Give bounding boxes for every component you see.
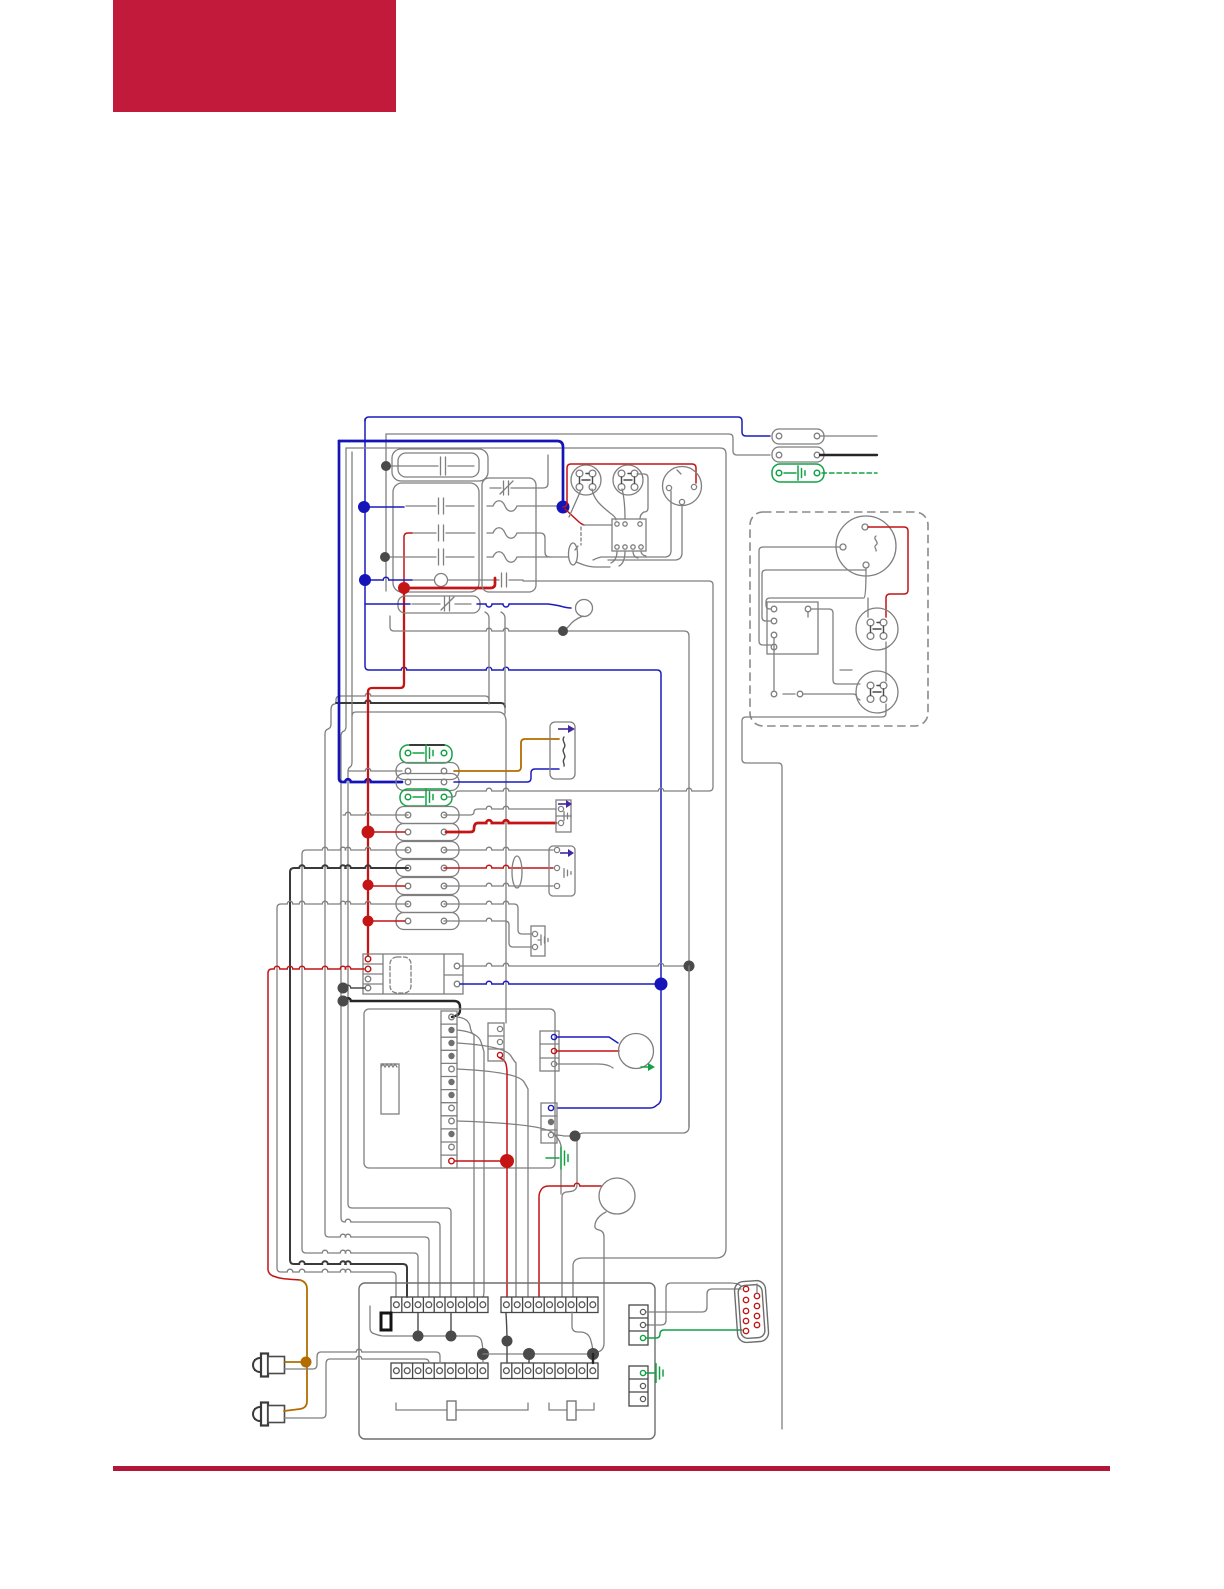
wire pcb s-curve 2 — [457, 1030, 484, 1297]
capacitor heater element E3 — [439, 525, 444, 541]
connector row C — [396, 807, 459, 824]
box R2 thermal switch — [549, 846, 575, 896]
fuse F3 — [487, 552, 522, 563]
wire R6 pin3 to junction — [554, 1135, 571, 1136]
relay K1 box — [612, 519, 646, 551]
wire red generator to plug A — [868, 527, 908, 617]
module pins left — [365, 956, 371, 962]
wire red pcb bottom jumper — [455, 1160, 503, 1162]
wire C2 BL to relay pin2 — [622, 489, 625, 519]
actuator pill rows — [512, 856, 522, 888]
wire element E1 row — [390, 465, 474, 467]
node dark junction s3 — [477, 1348, 489, 1360]
wire C1 BR to relay pin1 — [592, 489, 616, 520]
wire row E right to box R2 — [444, 847, 553, 850]
wire red to motor — [557, 1050, 619, 1052]
wire blue to lamp — [477, 604, 571, 608]
box R1 thermal switch — [556, 800, 571, 832]
wire fuse1 to blue node — [522, 505, 560, 507]
wire gray from selector to relay pin1 — [583, 524, 612, 526]
green terminal block E2 — [400, 789, 452, 806]
connector row D — [396, 824, 459, 841]
node red junction pcb — [500, 1154, 514, 1168]
capacitor C5 on row5 — [502, 573, 507, 587]
wire gray top frame to connector — [386, 434, 770, 455]
wire green K3 pin3 to dsub — [646, 1330, 742, 1338]
ground symbol in X3 — [784, 472, 796, 474]
wire orange row A to heater box — [454, 739, 559, 771]
wire contact to plug B BL — [803, 694, 860, 700]
capacitor heater element E2 — [439, 498, 444, 514]
arrow purple R0 — [558, 728, 568, 730]
wire blue stub row2 — [365, 506, 404, 508]
wire red long from jack line — [268, 966, 364, 1280]
box defrost row6 — [398, 596, 480, 613]
green terminal block E1 — [400, 745, 452, 763]
switch contact gap — [783, 693, 795, 695]
dsub pins right column — [754, 1293, 759, 1298]
wire orange riser — [284, 1280, 307, 1411]
capacitor heater element E1 — [441, 457, 446, 475]
wire K3 pin1 to dsub — [646, 1289, 741, 1312]
node dark junction s6 — [502, 1336, 513, 1347]
node dark junction s4 — [523, 1348, 535, 1360]
connector plug A 4-pin — [856, 608, 898, 650]
connector row A — [396, 763, 459, 780]
wire red riser connector R5 — [500, 1058, 507, 1297]
connector block K3 3-cell — [629, 1305, 648, 1345]
node junction dot x689 — [684, 961, 695, 972]
node dark junction s2 — [446, 1331, 457, 1342]
wire buzzer bottom to strip — [595, 1212, 606, 1353]
node red junction row I — [363, 916, 374, 927]
connector row I — [396, 913, 459, 930]
terminal strip TS2 right — [501, 1363, 598, 1379]
wire pcb s-curve 1 — [457, 1017, 474, 1297]
wire blue thick main — [339, 441, 563, 507]
page header red block — [113, 0, 396, 112]
wire pcb s-curve 4 — [457, 1069, 528, 1297]
wire gray y712 to x506 — [352, 712, 506, 1023]
wire gray y696 to x489 — [340, 693, 489, 700]
node junction dot row1 — [381, 461, 391, 471]
wire red diagonal from node — [565, 509, 584, 525]
capacitor heater element E4 — [439, 549, 444, 565]
wire ignition bottom pin down — [608, 505, 682, 560]
selector actuator pill — [569, 543, 578, 565]
wire lamp to y631 — [564, 616, 583, 631]
wire red stub to capacitor — [404, 578, 495, 588]
wire red thick drop to module — [368, 588, 404, 955]
node dark junction s1 — [413, 1331, 424, 1342]
pcb label rectangle — [381, 1064, 399, 1114]
connector block X3 green — [772, 464, 824, 482]
wire strip1 inner link — [370, 1306, 483, 1363]
node blue junction x661 — [655, 978, 668, 991]
fuse holder black — [381, 1313, 391, 1330]
wire element E2 row — [406, 505, 474, 507]
wire gray jack J2 to strip — [284, 1356, 429, 1418]
wire relay K2 TR to plug B — [811, 609, 860, 684]
wire red thin row F to box R2 — [444, 865, 553, 868]
node dark junction s5 — [587, 1348, 599, 1360]
wire red row D to box R1 — [446, 820, 556, 832]
wire bus to dsub — [646, 1283, 741, 1325]
wire row G right to box R2 — [444, 883, 553, 886]
connector block X1 — [772, 429, 824, 444]
connector row G — [396, 878, 459, 895]
ground symbol R3 — [538, 939, 540, 941]
box R3 sensor — [531, 926, 545, 956]
connector block X2 — [772, 447, 824, 462]
wire vertical x506 upper — [501, 612, 505, 714]
thermostat bulb row5 — [435, 574, 448, 587]
bottom control box — [359, 1283, 655, 1439]
connector row F — [396, 860, 459, 877]
wire pcb s-curve 5 — [457, 1121, 561, 1194]
wire module out blue to x661 — [460, 981, 657, 984]
ground wire green mid — [546, 1157, 559, 1159]
wire gray row5 jumper to green block E2 — [448, 581, 713, 797]
wire red drop from row3 — [404, 533, 412, 588]
wire fuse2 merge — [522, 533, 550, 557]
heater box R0 — [550, 722, 575, 779]
wire blue stub row5 — [365, 577, 412, 580]
buzzer B1 — [599, 1178, 635, 1214]
wire row E left to bundle — [302, 847, 418, 1297]
wire relay drops — [611, 551, 646, 566]
wire mains N out black — [820, 454, 877, 456]
wire row C right to box R1 — [444, 806, 556, 815]
wire plug A BR to plug B TR — [885, 642, 887, 681]
dsub connector DB9 — [734, 1280, 769, 1343]
selector link — [575, 546, 578, 550]
relay K2 box — [767, 602, 818, 654]
connector plug C1 4-pin — [571, 465, 601, 495]
terminal strip TS2 left — [391, 1363, 488, 1379]
wire red riser to ignition switch — [563, 464, 696, 507]
wire plug B BR out of box — [742, 704, 886, 1429]
ignition module box — [363, 954, 463, 994]
connector R6 3-cell — [541, 1103, 557, 1143]
wire element E4 row — [389, 556, 474, 558]
ground wire green K4 — [646, 1372, 654, 1374]
wire fuse3 to selector — [522, 556, 568, 558]
wire row H right to box R3 — [444, 901, 531, 934]
wire gray frame x346 jog to bundle x343 — [341, 448, 440, 1297]
wire generator bottom to relay K2 pin2 — [762, 568, 866, 621]
wire gray vertical x386 — [385, 434, 387, 591]
jack plug J1 — [254, 1359, 263, 1371]
heating element squiggle in R0 — [563, 737, 565, 766]
box heater row1 — [398, 453, 479, 477]
wire generator left to relay K2 pin4 — [759, 547, 840, 645]
wire gray outer frame x726 — [346, 448, 726, 1297]
connector R5 3-cell — [488, 1023, 504, 1061]
wire red row D stub — [368, 831, 405, 833]
wire gray jack J1 to strip — [284, 1349, 440, 1369]
page footer red rule — [113, 1466, 1110, 1471]
box heater main — [393, 483, 479, 592]
relay K1 pins — [615, 522, 619, 526]
selector switch wiper diagonal — [569, 490, 581, 517]
wire gray bundle x352 row A — [348, 452, 451, 1297]
wire black to pcb terminal — [343, 998, 460, 1017]
wire jumper bus y1354 — [483, 1353, 592, 1355]
box fuse block — [482, 478, 536, 592]
connector block K4 3-cell — [629, 1366, 648, 1406]
ignition switch S1 — [663, 467, 702, 506]
wire blue row B to heater box — [454, 769, 559, 782]
arrow purple R1 — [558, 803, 566, 805]
pcb terminal pins — [449, 1014, 455, 1020]
pcb control unit box — [364, 1009, 555, 1168]
wire fuse input right link — [520, 455, 548, 488]
node blue junction row5 — [359, 574, 371, 586]
wire fuse input row — [490, 487, 520, 489]
wire relay K2 pin1 link — [766, 570, 866, 609]
wire red row I stub — [368, 920, 405, 922]
wire blue thin top loop — [365, 417, 770, 436]
wire row I right to box R3 — [444, 918, 531, 947]
jack plug J2 — [254, 1408, 263, 1420]
wire row F left dark to bundle — [290, 865, 408, 1297]
wire gray x689 branch — [688, 966, 690, 1127]
node dark junction 2 — [338, 996, 349, 1007]
arrow green motor — [641, 1066, 648, 1068]
wire blue to motor — [557, 1037, 618, 1043]
node junction dot y631 — [558, 626, 568, 636]
node blue junction main — [557, 501, 570, 514]
wire blue thick vertical to row B — [339, 441, 402, 782]
wire pcb s-curve 3 — [457, 1043, 516, 1297]
dsub pins left column — [743, 1286, 748, 1291]
dashed enclosure box — [750, 512, 928, 726]
wire vertical x489 upper — [485, 612, 489, 704]
wire row C left to bundle — [343, 812, 408, 815]
wire dark y703 — [336, 700, 505, 707]
switch SW1 — [396, 1403, 528, 1410]
wire orange jack J1 — [285, 1361, 301, 1363]
connector row B — [396, 774, 459, 791]
wire dsub top stub — [756, 1284, 758, 1293]
node dark junction x575 — [570, 1131, 581, 1142]
capacitor slashed C6 — [441, 597, 454, 611]
wire module out gray to x689 — [460, 963, 685, 966]
wire C2 TR loop to relay pin3 — [637, 474, 648, 519]
lamp L1 — [576, 600, 593, 617]
box heater outer frame — [392, 449, 488, 481]
wire blue vertical left inner — [365, 419, 661, 1108]
wire row5 — [412, 579, 477, 581]
wire red buzzer loop — [539, 1183, 601, 1297]
wire row5 capacitor leads — [477, 579, 523, 581]
wire ignition left pin down — [593, 491, 671, 560]
node junction dot row4 — [380, 552, 390, 562]
AC generator G1 — [836, 516, 896, 576]
capacitor slashed input — [500, 481, 513, 495]
wire dark x331 to bundle x325 — [325, 704, 429, 1297]
wire jumper strip1 to strip2 right — [572, 1312, 593, 1354]
connector plug B 4-pin — [856, 671, 898, 713]
wire row H left to bundle — [277, 901, 408, 1297]
wire earth dashed green — [822, 472, 877, 474]
wire row A left to bundle — [348, 768, 402, 771]
wire dark jumper to module — [343, 985, 365, 988]
fuse F2 — [487, 528, 522, 539]
wire mains L out — [820, 435, 877, 437]
node blue junction row2 — [358, 501, 370, 513]
label minus mark — [840, 669, 852, 671]
connector plug C2 4-pin — [613, 465, 643, 495]
node dark junction 1 — [338, 983, 349, 994]
selector diagonal 2 — [576, 562, 610, 567]
wire blue stub row6 — [365, 603, 410, 605]
wire plug A TL stub — [867, 598, 869, 617]
module pins right — [454, 963, 460, 969]
connector R4 3-cell — [540, 1031, 559, 1071]
ground mark R2 — [564, 869, 571, 878]
wire red row G stub — [368, 885, 405, 887]
terminal strip TS1 right — [501, 1297, 598, 1313]
wire row6 — [412, 603, 471, 605]
node red junction row D — [362, 826, 375, 839]
pcb terminal column — [441, 1011, 457, 1168]
connector row E — [396, 842, 459, 859]
motor M1 — [619, 1034, 654, 1069]
relay K2 pins — [771, 606, 777, 612]
terminal strip TS1 left — [391, 1297, 488, 1313]
connector row H — [396, 896, 459, 913]
node red junction — [398, 582, 410, 594]
wire relay K2 pin3 down — [773, 638, 775, 690]
wire element E3 row — [412, 532, 475, 534]
node red junction row G — [363, 880, 374, 891]
wire gray to motor — [557, 1064, 613, 1068]
ground mark R1 — [564, 812, 571, 821]
node orange junction — [301, 1357, 312, 1368]
arrow purple R2 — [560, 852, 568, 854]
fuse F1 — [487, 501, 522, 512]
wire gray y631 to x689 vertical — [390, 616, 689, 1297]
switch SW2 — [549, 1403, 594, 1410]
wire jumper 507 — [506, 1313, 507, 1363]
